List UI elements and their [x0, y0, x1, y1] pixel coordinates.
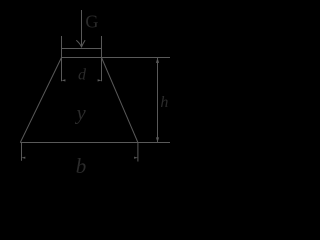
dimension d arrowhead left: [62, 79, 66, 81]
dimension b arrowhead left: [22, 157, 26, 159]
dimension d extension line right: [101, 36, 103, 81]
svg-text:y: y: [75, 102, 87, 124]
dimension d extension line left: [61, 36, 63, 81]
dimension h line: [157, 58, 159, 142]
dimension b arrowhead right: [134, 157, 138, 159]
svg-text:b: b: [76, 154, 87, 174]
trapezoid right side: [102, 58, 138, 143]
trapezoid top edge and h extension line: [62, 57, 171, 59]
trapezoid left side: [20, 58, 61, 143]
svg-text:h: h: [160, 94, 168, 111]
force arrow G shaft: [81, 10, 83, 46]
dimension b extension line left: [21, 143, 23, 161]
dimension h top arrowhead: [156, 58, 159, 63]
trapezoid base line and h extension: [20, 142, 170, 144]
dimension h bottom arrowhead: [156, 137, 159, 142]
svg-text:d: d: [78, 66, 87, 83]
top plate upper edge: [62, 48, 102, 50]
dimension d arrowhead right: [98, 79, 102, 81]
dimension b extension line right: [137, 143, 139, 162]
svg-text:G: G: [85, 12, 98, 32]
force arrow G head: [76, 40, 85, 47]
